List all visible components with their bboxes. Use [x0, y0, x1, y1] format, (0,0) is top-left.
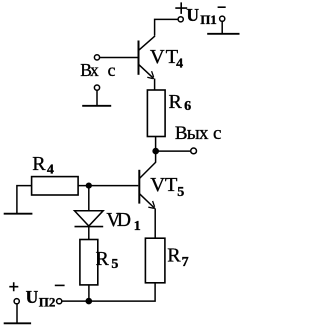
svg-text:R: R [167, 245, 181, 267]
svg-text:VT: VT [150, 174, 178, 196]
svg-text:5: 5 [177, 185, 184, 200]
svg-text:с: с [213, 123, 221, 144]
svg-text:R: R [96, 248, 110, 270]
svg-text:U: U [186, 5, 199, 25]
svg-text:7: 7 [182, 255, 189, 270]
svg-text:с: с [108, 60, 116, 80]
svg-text:U: U [26, 287, 39, 307]
svg-text:R: R [32, 153, 46, 175]
svg-text:Вх: Вх [80, 60, 99, 80]
svg-text:VD: VD [106, 210, 131, 231]
svg-text:Вых: Вых [175, 123, 209, 144]
svg-text:1: 1 [134, 219, 141, 234]
svg-text:R: R [169, 91, 183, 113]
svg-text:П1: П1 [200, 12, 217, 27]
svg-text:4: 4 [47, 162, 54, 177]
svg-text:4: 4 [176, 56, 183, 71]
svg-text:П2: П2 [39, 295, 56, 310]
svg-text:VT: VT [150, 46, 179, 68]
svg-text:5: 5 [111, 257, 118, 272]
svg-text:6: 6 [184, 99, 191, 114]
